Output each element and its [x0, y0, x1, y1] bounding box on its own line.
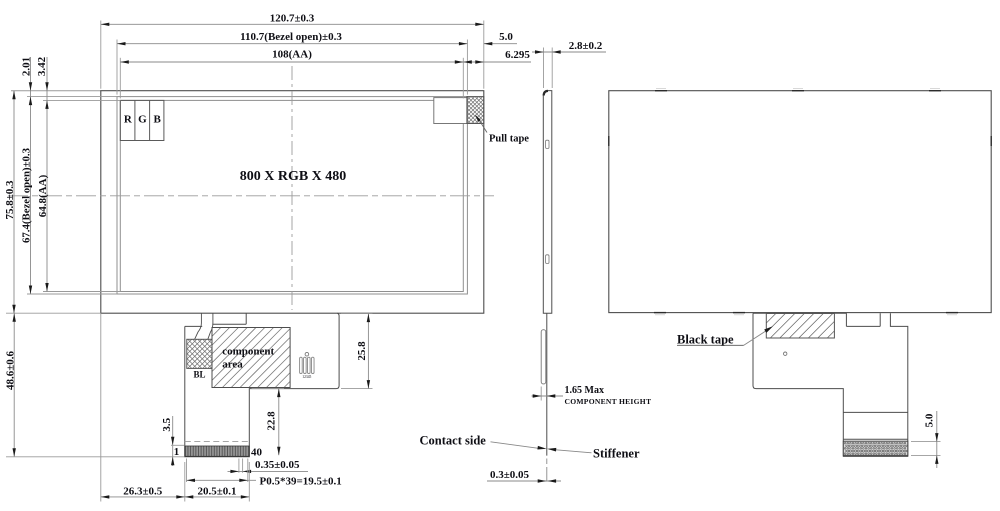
node: dimension 25.8 — [341, 314, 373, 389]
svg-text:Black tape: Black tape — [677, 332, 734, 346]
svg-text:2.8±0.2: 2.8±0.2 — [569, 40, 603, 52]
svg-text:48.6±0.6: 48.6±0.6 — [4, 350, 16, 390]
node: bezel open outline 110.7x67.4 — [117, 97, 467, 294]
svg-text:3.42: 3.42 — [36, 56, 48, 76]
svg-text:40: 40 — [251, 446, 263, 458]
svg-text:Stiffener: Stiffener — [593, 446, 640, 460]
node: dimension 0.3+-0.05 stiffener — [487, 469, 561, 483]
svg-text:110.7(Bezel open)±0.3: 110.7(Bezel open)±0.3 — [240, 31, 342, 43]
svg-text:Pull tape: Pull tape — [489, 134, 529, 145]
svg-text:1: 1 — [174, 446, 180, 458]
svg-text:800 X RGB X 480: 800 X RGB X 480 — [240, 169, 347, 184]
svg-text:12345: 12345 — [302, 375, 311, 379]
node: component area — [212, 328, 290, 388]
wire: horizontal centerline — [8, 195, 494, 197]
svg-text:B: B — [154, 114, 162, 126]
wire: FPC bend dashed line — [185, 441, 250, 443]
node: black tape label — [677, 326, 773, 346]
node: dimension 0.35+-0.05 pin width — [228, 459, 309, 474]
node: dimension 3.42 and 64.8 AA — [36, 56, 49, 291]
node: side view glass stack — [543, 91, 552, 314]
svg-text:108(AA): 108(AA) — [272, 49, 312, 61]
node: dimension 48.6+-0.6 — [4, 313, 184, 457]
node: FPC tail outline (front view) — [185, 313, 339, 457]
wire: backlight leads — [195, 313, 213, 339]
node: back stiffener and connector — [843, 412, 908, 455]
node: dimension 5.0 pull tape — [484, 31, 517, 45]
svg-text:G: G — [138, 114, 147, 126]
node: dimensions 26.3 and 20.5 — [101, 313, 250, 501]
svg-text:64.8(AA): 64.8(AA) — [37, 174, 49, 217]
svg-text:BL: BL — [193, 369, 205, 379]
svg-text:5.0: 5.0 — [923, 413, 935, 427]
node: pull tape label — [489, 134, 529, 145]
node: side view tape mark 1 — [546, 140, 549, 148]
node: active area outline 108x64.8 — [120, 100, 463, 291]
svg-text:120.7±0.3: 120.7±0.3 — [270, 12, 315, 24]
svg-text:2.01: 2.01 — [21, 57, 33, 76]
svg-text:6.295: 6.295 — [505, 49, 530, 61]
svg-text:0.35±0.05: 0.35±0.05 — [255, 459, 300, 471]
svg-text:26.3±0.5: 26.3±0.5 — [123, 485, 163, 497]
node: dimension 6.295 — [463, 49, 531, 64]
node: front view module outline 120.7x75.8 — [101, 91, 484, 314]
wire: left extension lines — [6, 97, 120, 314]
svg-text:1.65 Max: 1.65 Max — [565, 385, 604, 396]
node: 40-pin gold finger connector — [185, 446, 250, 456]
svg-text:3.5: 3.5 — [161, 417, 173, 431]
node: back view alignment tick marks — [609, 89, 991, 315]
node: back view module outline — [609, 91, 991, 313]
node: dimension 110.7 bezel open — [117, 31, 467, 45]
wire: top extension lines — [101, 21, 484, 99]
node: stiffener label — [547, 446, 640, 460]
wire: side view extension lines 2.8 — [544, 48, 553, 89]
node: dimension 2.01 and 67.4 bezel open — [20, 57, 32, 294]
node: black tape hatch — [766, 314, 834, 339]
node: dimension P0.5*39=19.5+-0.1 — [187, 459, 342, 488]
node: pin 1 label — [174, 446, 180, 458]
wire: FPC side profile line — [546, 313, 548, 481]
svg-text:25.8: 25.8 — [356, 341, 368, 361]
node: dimension 75.8+-0.3 — [4, 91, 16, 314]
svg-text:P0.5*39=19.5±0.1: P0.5*39=19.5±0.1 — [260, 475, 342, 487]
node: component side profile — [541, 330, 546, 384]
node: dimension 1.65 max component height — [532, 385, 652, 406]
node: dimension 3.5 — [161, 416, 185, 466]
node: resolution label — [240, 169, 347, 184]
node: dimension 120.7+-0.3 — [101, 12, 484, 26]
node: side view tape mark 2 — [546, 255, 549, 264]
node: pull tape crosshatch — [434, 97, 484, 124]
svg-text:5.0: 5.0 — [499, 31, 513, 43]
node: pin 40 label — [251, 446, 263, 458]
node: dimension 22.8 — [252, 389, 285, 456]
node: dimension 2.8+-0.2 thickness — [532, 40, 606, 54]
svg-text:22.8: 22.8 — [266, 411, 278, 431]
node: BL backlight connector block — [187, 339, 212, 379]
wire: vertical centerline — [291, 66, 293, 310]
svg-text:75.8±0.3: 75.8±0.3 — [4, 180, 16, 220]
svg-text:Contact side: Contact side — [420, 433, 487, 447]
wire: module top edge extension line (left) — [11, 90, 101, 92]
node: dimension 108 AA — [120, 49, 463, 64]
node: dimension 5.0 connector — [911, 411, 941, 468]
node: date stamp icon — [300, 352, 314, 378]
svg-text:COMPONENT HEIGHT: COMPONENT HEIGHT — [565, 397, 652, 406]
node: contact side label — [420, 433, 547, 449]
svg-text:0.3±0.05: 0.3±0.05 — [490, 469, 530, 481]
node: back FPC hole — [784, 352, 787, 355]
node: FPC tail outline (back view) — [753, 313, 908, 456]
svg-text:20.5±0.1: 20.5±0.1 — [197, 485, 236, 497]
svg-text:R: R — [124, 114, 133, 126]
svg-text:area: area — [222, 359, 243, 371]
wire: pull tape leader — [475, 115, 487, 133]
svg-text:component: component — [222, 346, 274, 358]
node: RGB pixel structure boxes — [120, 100, 164, 140]
svg-text:67.4(Bezel open)±0.3: 67.4(Bezel open)±0.3 — [20, 147, 32, 243]
